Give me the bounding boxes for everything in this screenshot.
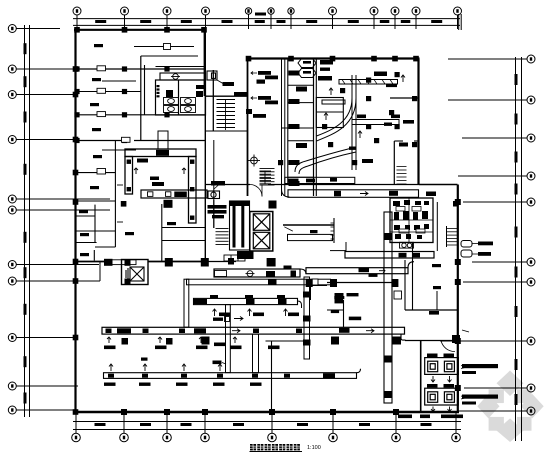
riser top blobs: [230, 202, 249, 207]
hall wall y=141 b: [414, 140, 419, 142]
stair NE: [397, 167, 407, 185]
column: [121, 201, 127, 207]
hall duct hatches: [342, 80, 393, 85]
wall x=271.5: [271, 341, 273, 412]
wall y=340.5: [405, 340, 458, 342]
wall y=172.6: [75, 172, 115, 174]
duct riser pair x=281.5: [282, 59, 285, 196]
band B diffuser 1: [246, 299, 255, 304]
column: [455, 279, 461, 285]
duct diffuser box: [334, 191, 341, 197]
top dimension lines: [73, 19, 460, 26]
wall x=313.5: [313, 59, 315, 197]
outer wall bottom: [74, 411, 459, 413]
wall y=201: [75, 200, 115, 202]
duct along corridor y=177-183.5: [285, 177, 355, 183]
vent shaft box: [207, 71, 217, 80]
wall x=437: [436, 291, 438, 310]
duct band A: [214, 269, 300, 277]
duct segment y=100: [322, 100, 345, 104]
band D boxes: [399, 253, 407, 257]
AHU room frame 2: [425, 388, 459, 405]
outer wall top of left block: [74, 29, 206, 31]
drop duct x=184-189: [184, 279, 189, 327]
stair SE: [447, 229, 457, 246]
room wall y=141: [288, 140, 314, 142]
column: [74, 138, 79, 143]
grid bubble bottom 5: [268, 413, 277, 442]
column: [392, 56, 398, 62]
diffuser box on room duct: [164, 44, 171, 50]
arrows below band B: [213, 309, 288, 316]
column: [122, 89, 127, 94]
wc stalls: [164, 98, 196, 113]
corridor wall y=261.5 west: [75, 261, 122, 263]
grid bubble left 1: [8, 25, 60, 33]
grid bubble top 5: [245, 8, 251, 29]
duct label: [174, 192, 187, 198]
wall top of lower-right wing: [419, 184, 458, 186]
band A white box: [215, 271, 227, 277]
grid bubble right 1: [448, 55, 535, 63]
column: [330, 56, 336, 62]
GYFB label: [429, 311, 439, 315]
air handling arrows: [117, 168, 186, 222]
wall y=227.5: [162, 227, 206, 229]
riser bar 1: [233, 204, 236, 248]
supply duct loop left run: [125, 157, 133, 195]
wall y=140.5 left part: [75, 140, 128, 142]
outside labels right of AHUs: [462, 364, 498, 405]
stair core top (between 259-271): [260, 171, 272, 185]
hall extra labels: [349, 143, 408, 164]
duct label: [389, 191, 398, 196]
room wall y=103: [288, 102, 314, 104]
west arrows: [251, 72, 257, 100]
duct band D: [345, 252, 434, 259]
column: [165, 258, 173, 267]
stair wall x=213.3: [212, 70, 214, 131]
grid bubble right 3: [462, 134, 535, 142]
title text (glyph blocks): [250, 444, 300, 450]
column: [73, 92, 79, 98]
outer wall right of right block: [417, 59, 419, 185]
column: [73, 170, 79, 176]
wall y=114.8: [75, 114, 206, 116]
arrow on A2: [379, 269, 385, 273]
pantry room: [316, 98, 343, 128]
top dimension texts: [95, 13, 442, 24]
column: [121, 409, 127, 415]
plant room white boxes: [396, 207, 425, 234]
column: [73, 278, 79, 284]
column: [455, 199, 461, 205]
wall y=247: [95, 246, 115, 248]
grid bubble left 8: [8, 277, 76, 285]
grid bubble left 9: [8, 334, 78, 342]
arrows in hall: [324, 75, 405, 138]
exhaust fan DTF-L1: [461, 241, 472, 248]
fan leaders: [472, 244, 478, 255]
grid bubble left 7: [8, 261, 99, 269]
grid bubble bottom 7: [392, 413, 401, 442]
column: [391, 279, 398, 287]
ladder marks: [331, 223, 335, 239]
drop duct V3: [226, 305, 231, 373]
band B labels above: [210, 295, 285, 298]
grid bubble right 5: [463, 198, 535, 206]
elevator cab 2: [253, 232, 269, 249]
wall x=140.8: [140, 56, 142, 140]
grid bubble bottom 6: [329, 413, 338, 442]
V2 connector at bottom: [384, 402, 392, 404]
left dimension texts: [24, 43, 27, 403]
wall x=310.5: [310, 283, 312, 301]
grid bubble top 6: [268, 8, 274, 29]
stair west: [260, 169, 275, 186]
lower duct flow arrows: [232, 329, 374, 333]
label stack 998: [208, 205, 227, 218]
AHU room frame 1: [425, 358, 459, 375]
west wall of right block: [247, 59, 249, 197]
column: [122, 27, 128, 33]
column: [413, 56, 419, 62]
wall x=346: [345, 242, 347, 251]
exhaust fan box 45-L1: [208, 191, 220, 199]
grid bubble bottom 8: [452, 413, 461, 442]
wall y=250.6: [330, 250, 346, 252]
leader marks: [461, 330, 469, 399]
right dimension texts: [515, 74, 518, 405]
duct arrow: [360, 192, 368, 196]
west labels column: [253, 71, 278, 118]
column: [201, 27, 207, 33]
ramp labels bottom right: [398, 415, 463, 419]
AHU down arrows: [431, 376, 452, 412]
hexagon tag 2: [298, 69, 316, 78]
room duct line N5: [134, 46, 194, 48]
diffuser near wall x=343: [335, 298, 344, 303]
stair wall y=131: [206, 130, 247, 132]
band C white box: [312, 279, 318, 285]
AHU 2b: [444, 392, 454, 403]
wall x=161.8: [161, 204, 163, 261]
label FS-M: [152, 182, 164, 186]
band B dark segment: [194, 299, 207, 304]
corridor duct y=190-198: [141, 190, 207, 198]
wall jog y=128: [282, 127, 288, 129]
label in lower-right wing: [426, 192, 436, 197]
outer wall right of left block: [204, 29, 206, 96]
room labels left block: [79, 44, 176, 256]
toilet door wall: [156, 66, 207, 68]
toilet duct fan: [171, 74, 180, 80]
FB-CM label: [349, 317, 361, 321]
column: [73, 137, 79, 143]
main lower duct: [102, 327, 405, 334]
elevator corner blocks: [125, 260, 131, 266]
corridor wall y=261.5 east: [148, 261, 206, 263]
elbow A-A2: [300, 269, 306, 274]
bottom dimension texts: [95, 423, 432, 426]
title glyph texture: [250, 444, 300, 450]
duct diffuser box: [148, 192, 171, 197]
wall x=213.8 lower: [213, 140, 215, 228]
corridor wall y=184.5 east: [268, 184, 313, 186]
duct riser x=352: [352, 75, 356, 170]
stair core left: [216, 229, 229, 245]
grid bubble left 3: [8, 91, 76, 99]
column: [73, 259, 79, 265]
supply duct loop right run: [189, 157, 197, 224]
grid bubble top 11: [412, 7, 420, 29]
1:8 label: [213, 361, 222, 365]
riser bar 2: [241, 205, 244, 248]
label 998-M gap block: [234, 92, 247, 96]
column: [330, 279, 337, 287]
FB-M label: [284, 266, 292, 269]
hall duct y=119.5: [352, 120, 399, 125]
corridor wall y=261.5 core: [206, 261, 236, 263]
elevator cab 1: [253, 214, 269, 231]
column: [164, 27, 170, 33]
band B diffuser 2: [278, 299, 287, 304]
leader diag: [284, 227, 293, 231]
column: [164, 409, 170, 415]
grid bubble right 6: [472, 258, 535, 266]
wall x=316.3: [315, 59, 317, 197]
room wall y=177: [288, 176, 314, 178]
grid bubble top 1: [73, 7, 81, 29]
wall x=287.8: [287, 59, 289, 185]
label 45-L1: [214, 185, 219, 190]
grid bubble right 4: [458, 172, 535, 180]
labels on corridor duct: [288, 178, 338, 183]
cabinet row: [224, 255, 245, 261]
grid bubble right 7: [463, 278, 535, 286]
column: [73, 66, 79, 72]
wall x=334: [333, 218, 335, 243]
F8-M labels below band B: [219, 313, 299, 317]
main corridor duct y=190-197: [288, 190, 419, 198]
door arc: [250, 185, 262, 197]
column: [269, 409, 275, 415]
bottom dimension lines: [73, 422, 461, 430]
grid bubble right 10: [458, 407, 535, 415]
plant room walls: [390, 198, 433, 243]
pump box with circles: [400, 242, 414, 248]
column: [73, 409, 79, 415]
band C blob: [268, 279, 277, 285]
duct label SAD-23: [156, 150, 169, 156]
leader to label: [217, 80, 223, 84]
column: [455, 385, 461, 391]
V2 black caps: [385, 233, 392, 398]
wall x=100 lower: [99, 262, 101, 282]
band A fan symbol: [246, 271, 255, 277]
PE-M labels below lower duct: [104, 346, 280, 350]
hexagon tag 1: [298, 59, 316, 68]
riser elbow to duct: [282, 189, 290, 197]
label row y=292-300: [334, 296, 344, 299]
corridor wall y=184.5 west: [206, 184, 250, 186]
grid bubble right 2: [448, 96, 535, 104]
duct labels: [318, 72, 414, 124]
bottom duct arrows: [109, 364, 222, 371]
label TAB-M: [338, 327, 340, 329]
column: [455, 338, 461, 344]
labels near hexagons: [320, 60, 333, 71]
AHU 1a: [428, 361, 438, 372]
column: [201, 258, 209, 267]
wall y=216: [75, 215, 95, 217]
arrows below duct: [107, 337, 237, 343]
grid bubble top 12: [454, 7, 462, 29]
labels on hall duct 2: [357, 115, 400, 126]
core wall x=213.8: [213, 200, 215, 228]
column: [288, 56, 294, 62]
column: [452, 335, 460, 343]
wall y=231: [75, 230, 115, 232]
band2 label: [310, 230, 318, 233]
grid bubble top 2: [121, 7, 129, 29]
elevator lower-left enclosure: [122, 260, 149, 285]
column: [455, 259, 461, 265]
column: [393, 409, 399, 415]
wall y=69: [75, 68, 206, 70]
column: [122, 138, 127, 143]
column: [330, 409, 336, 415]
column: [246, 56, 252, 62]
column: [202, 409, 208, 415]
column: [164, 66, 169, 71]
wall y=285.5: [311, 285, 328, 287]
grid cross symbol: [248, 155, 260, 167]
corridor wall y=184.5 far east: [314, 184, 420, 186]
wall x=420.7: [420, 341, 422, 412]
core column SW: [228, 258, 234, 265]
watermark notches: [500, 396, 521, 418]
plant room inner lines: [390, 198, 433, 242]
band A end cap: [291, 271, 297, 278]
white label box on wall: [112, 260, 136, 265]
column on right wall: [453, 201, 459, 207]
bottom supply duct: [104, 373, 357, 379]
bottom duct end elbow: [357, 369, 361, 373]
door arc lower right: [441, 341, 455, 352]
wall x=343.5: [343, 300, 345, 328]
hall duct y=79-84: [339, 80, 398, 85]
grid bubble left 6: [8, 206, 110, 214]
elevator enclosure: [250, 212, 273, 252]
grid bubble bottom 2: [120, 413, 129, 442]
supply duct loop top run: [125, 149, 196, 157]
column: [104, 259, 113, 266]
core column SE: [267, 258, 276, 267]
grid bubble top 3: [163, 7, 171, 29]
grid bubble left 5: [8, 195, 110, 203]
label 998-L: [223, 82, 235, 86]
grid bubble left 10: [8, 382, 78, 390]
wall x=205.3 lower: [204, 96, 206, 262]
column: [371, 56, 377, 62]
room wall y=128: [288, 127, 314, 129]
wall y=310 west segment: [327, 309, 344, 311]
lower duct elbow down at x=401: [401, 334, 406, 340]
grid bubble left 2: [8, 65, 76, 73]
hexagon labels: [303, 61, 311, 74]
diffuser squares below lower duct: [122, 337, 402, 345]
grid bubble top 4: [202, 7, 210, 29]
right dimension lines: [516, 57, 522, 441]
wall x=405: [404, 260, 406, 310]
column: [306, 279, 313, 287]
stair treads center-top: [217, 99, 236, 130]
column: [74, 27, 80, 33]
V1 blobs: [303, 292, 311, 346]
grid bubble bottom 1: [72, 413, 81, 442]
flexible duct curves: [295, 98, 356, 174]
fan labels: [478, 242, 493, 256]
wall x=94 lower: [93, 250, 95, 261]
grid bubble top 8: [329, 7, 337, 29]
grid bubble left 4: [8, 136, 76, 144]
wall y=242.5: [75, 242, 97, 244]
fan coils west rooms: [289, 71, 308, 187]
Nd label: [141, 358, 148, 361]
grid bubble bottom 4: [201, 413, 210, 442]
stair wall y=96.2: [206, 95, 247, 97]
labels below bottom duct: [104, 383, 262, 386]
lower duct boxes and labels: [106, 328, 350, 334]
room duct line 3: [102, 149, 136, 151]
riser shaft outline: [230, 201, 250, 250]
column: [122, 66, 127, 71]
wall x=115.4: [114, 141, 116, 247]
grid bubble right 8: [440, 337, 535, 345]
vertical duct V1: [304, 277, 310, 359]
sinks right: [196, 85, 204, 89]
wall y=281: [75, 280, 100, 282]
vertical duct V2: [384, 212, 392, 403]
drop duct x=252.5: [253, 334, 259, 373]
grid bubble top 7: [288, 8, 294, 29]
wall x=95 upper: [94, 205, 96, 242]
AHU labels: [427, 354, 454, 388]
label FC-01: [137, 159, 148, 163]
left dimension lines: [25, 25, 30, 417]
outer wall top of right block: [248, 57, 420, 59]
band1 line: [283, 224, 334, 226]
column: [122, 112, 127, 117]
hall wall y=141 a: [394, 140, 403, 142]
AHU 2a: [428, 392, 438, 403]
up arrow label: [150, 177, 159, 181]
core bottom blobs: [237, 251, 254, 259]
hall wall y=98: [390, 97, 419, 99]
ELF label+box: [213, 318, 223, 321]
core column NE: [269, 201, 277, 209]
wall y=91.5: [75, 91, 141, 93]
toilet walls: [156, 80, 206, 115]
white fan-coil boxes on walls: [97, 66, 130, 174]
loop diffusers: [127, 160, 195, 220]
ALB label: [331, 310, 339, 313]
watermark logo: [477, 371, 543, 443]
wall x=144.5 toilet corridor: [144, 65, 146, 115]
wall y=341 segment: [266, 340, 311, 342]
column: [74, 89, 79, 94]
